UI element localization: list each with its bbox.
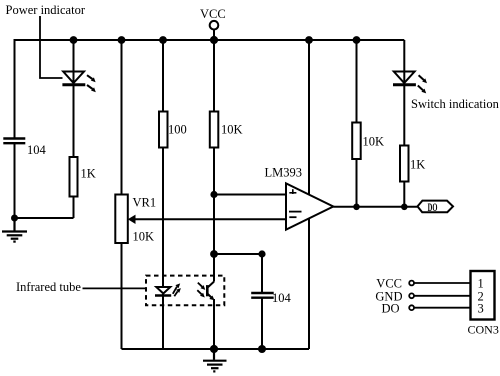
connector CON3 box: [471, 271, 495, 320]
wire op-amp pass-through column (rail to bottom rail): [308, 40, 310, 349]
node dots output wire: [353, 204, 360, 211]
resistor R1 1K (below D1): [70, 157, 78, 197]
wire ground link (node A to R 1K bottom): [15, 217, 74, 219]
svg-text:10K: 10K: [133, 230, 155, 244]
ground (left): [2, 218, 27, 242]
wire pointer from Infrared tube label: [83, 287, 147, 289]
svg-text:Infrared tube: Infrared tube: [16, 280, 81, 294]
wire 10K column top (rail to R3 10K): [213, 40, 215, 112]
wire bottom ground rail: [122, 348, 310, 350]
wire 100-ohm column middle (R2 100 to IR LED): [162, 148, 164, 288]
svg-text:104: 104: [27, 143, 47, 157]
wire VR1 column bottom (VR1 to bottom rail): [121, 243, 123, 349]
potentiometer VR1 10K: [115, 195, 128, 244]
wire left column bottom (C1 to ground node): [14, 144, 16, 218]
wire top rail VCC: [15, 39, 405, 41]
IR LED emission arrows: [173, 283, 181, 296]
wire CON3 pin2: [414, 295, 471, 297]
resistor R4 10K (right): [352, 123, 361, 160]
wire capacitor C2 column bottom: [261, 299, 263, 350]
resistor R3 10K: [210, 112, 219, 148]
wire 100-ohm column bottom (IR LED to bottom rail): [162, 294, 164, 349]
VCC terminal circle: [210, 21, 219, 30]
op-amp plus mark: [289, 189, 296, 194]
wire right LED column (rail corner to LED D2): [403, 40, 405, 72]
wire op-amp output to DO flag: [333, 206, 417, 208]
LED D2 switch indication: [393, 72, 416, 85]
phototransistor light arrows: [197, 283, 205, 298]
svg-text:VCC: VCC: [200, 7, 226, 21]
wire op-amp minus input from VR1 wiper: [133, 218, 286, 220]
DO output flag: [418, 201, 454, 213]
svg-text:1K: 1K: [410, 158, 425, 172]
op-amp U1 LM393: [286, 183, 333, 229]
capacitor C1 104 (left): [3, 139, 25, 144]
wire VCC stub (VCC terminal to rail): [213, 30, 215, 41]
LED D1 power indicator: [62, 72, 85, 85]
node dots capacitor link: [210, 250, 218, 258]
infrared tube dashed box: [146, 276, 224, 306]
capacitor C2 104 (middle): [251, 293, 274, 298]
LED D1 light arrows: [87, 75, 96, 92]
wire CON3 pin1: [414, 282, 471, 284]
ground (bottom center): [203, 349, 227, 371]
resistor R2 100: [159, 112, 168, 148]
node dot plus-input tee: [210, 191, 217, 198]
wire right 10K column bottom (R4 to output wire): [356, 159, 358, 207]
wire LED column (rail to LED D1): [73, 40, 75, 72]
node dots on top rail: [70, 36, 78, 44]
IR LED (emitter diode): [155, 287, 171, 296]
LED D2 light arrows: [418, 75, 427, 93]
wire capacitor C2 column top: [261, 254, 263, 292]
wire left column top (rail to C1): [14, 39, 16, 138]
wire VR1 column top (rail to VR1): [121, 40, 123, 195]
terminal circle GND: [409, 293, 414, 298]
node A (ground junction): [11, 215, 18, 222]
terminal circle VCC: [409, 281, 414, 286]
svg-text:DO: DO: [428, 202, 438, 214]
wire 100-ohm column top (rail to R2 100): [162, 40, 164, 112]
phototransistor Q1: [207, 282, 214, 299]
svg-text:3: 3: [478, 302, 484, 316]
svg-text:100: 100: [168, 123, 187, 137]
wire phototransistor emitter to bottom rail: [213, 299, 215, 349]
svg-text:CON3: CON3: [468, 323, 499, 337]
VR1 wiper arrow: [128, 215, 136, 224]
wire capacitor link (node to C2): [214, 253, 262, 255]
wire pointer from Power indicator label: [40, 16, 63, 78]
svg-text:Power indicator: Power indicator: [6, 3, 86, 17]
terminal circle DO: [409, 305, 414, 310]
svg-text:VR1: VR1: [133, 196, 157, 210]
phototransistor emitter arrowhead: [209, 296, 214, 301]
svg-text:LM393: LM393: [265, 166, 303, 180]
wire op-amp plus input (node to U1): [214, 194, 286, 196]
svg-text:104: 104: [272, 291, 292, 305]
wire right LED column (LED D2 to R5 1K): [403, 72, 405, 146]
wire 10K column middle (R3 10K to node, phototransistor): [213, 148, 215, 282]
node dots bottom rail: [210, 345, 218, 353]
resistor R5 1K (right): [400, 146, 409, 182]
svg-text:10K: 10K: [363, 135, 385, 149]
wire LED column (R1 1K to ground link): [73, 197, 75, 219]
wire CON3 pin3: [414, 307, 471, 309]
op-amp minus marks: [289, 212, 302, 218]
svg-text:1K: 1K: [81, 167, 96, 181]
svg-text:DO: DO: [381, 301, 399, 315]
wire right 10K column top (rail to R4 10K): [356, 40, 358, 123]
wire LED column (LED D1 through triangle to R1 1K): [73, 72, 75, 157]
svg-text:Switch indication: Switch indication: [411, 97, 500, 111]
wire right LED column (R5 1K to output wire): [403, 182, 405, 207]
svg-text:10K: 10K: [221, 123, 243, 137]
